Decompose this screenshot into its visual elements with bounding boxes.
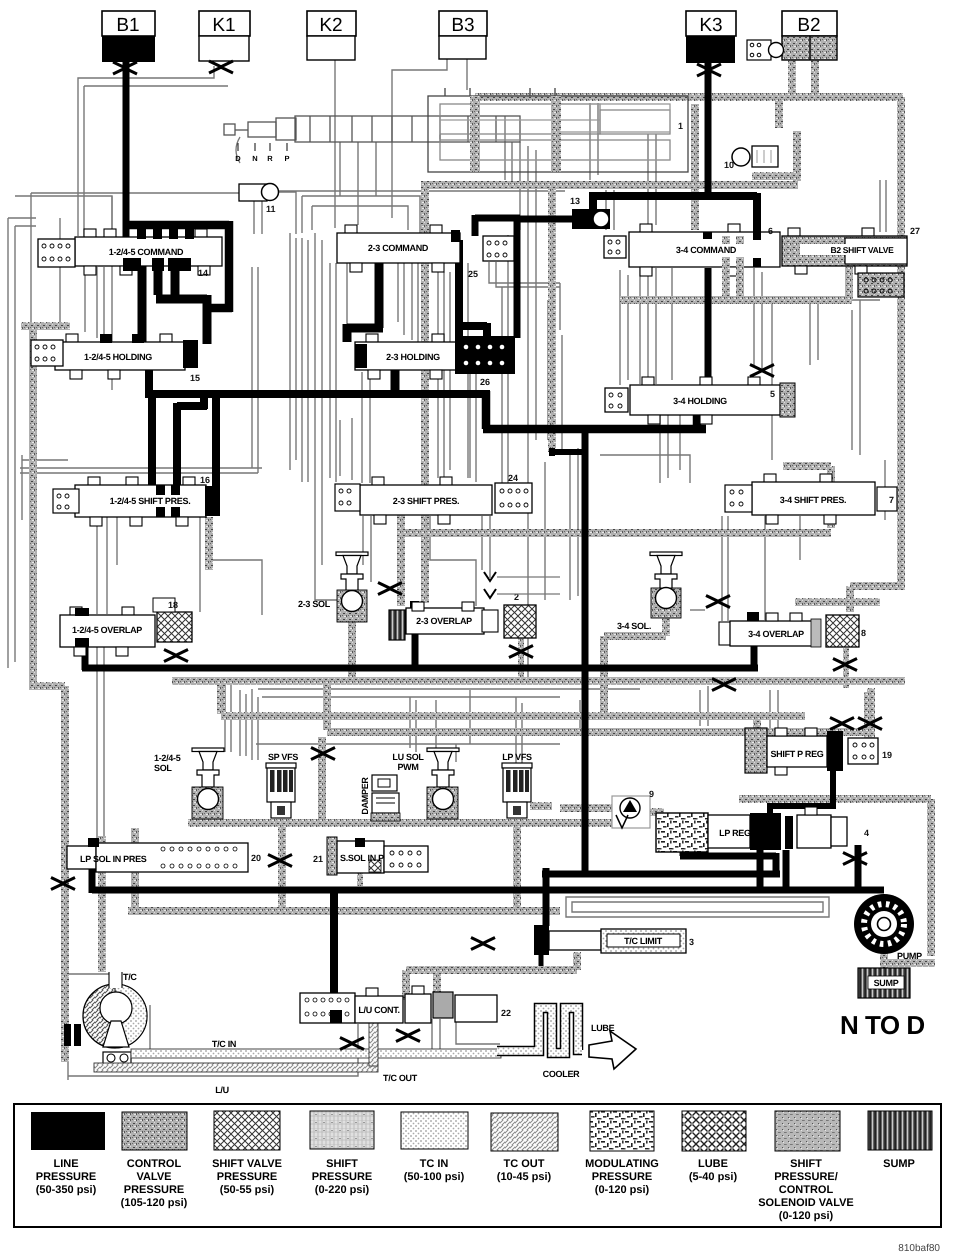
wire 2-3 overlap drop xyxy=(412,632,419,669)
check valve 10 xyxy=(724,146,778,170)
svg-text:LINE: LINE xyxy=(53,1158,78,1170)
svg-text:LUBE: LUBE xyxy=(698,1158,728,1170)
svg-text:3-4 COMMAND: 3-4 COMMAND xyxy=(676,245,737,255)
svg-text:SOLENOID VALVE: SOLENOID VALVE xyxy=(758,1197,854,1209)
svg-text:27: 27 xyxy=(910,226,920,236)
svg-text:6: 6 xyxy=(768,226,773,236)
wire: thin gray interconnect lines xyxy=(8,59,886,1080)
cooler coil xyxy=(497,1008,582,1053)
svg-text:19: 19 xyxy=(882,750,892,760)
wire 26 stub to trunk xyxy=(550,448,583,456)
accumulator 2 xyxy=(504,605,536,638)
valve L/U CONT (22) xyxy=(300,986,511,1023)
svg-text:7: 7 xyxy=(889,495,894,505)
svg-text:3: 3 xyxy=(689,937,694,947)
valve symbol below K3 xyxy=(697,64,721,76)
svg-text:P: P xyxy=(284,154,289,163)
check valve 13 xyxy=(570,196,610,229)
sump xyxy=(858,968,910,998)
valve LP REG (4) xyxy=(656,807,869,852)
valve symbol right of LP SOL IN PRES xyxy=(268,855,292,867)
svg-text:T/C OUT: T/C OUT xyxy=(383,1073,418,1083)
valve symbol below 8 xyxy=(833,659,857,671)
wire left control trunk xyxy=(29,328,37,690)
valve 1-2/4-5 OVERLAP (18) xyxy=(60,607,155,656)
wire overlap rail xyxy=(82,644,758,670)
valve 3-4 SHIFT PRES (7) xyxy=(752,474,897,524)
valve symbol below B1 xyxy=(113,62,137,74)
svg-text:(50-350 psi): (50-350 psi) xyxy=(36,1184,97,1196)
svg-text:TC IN: TC IN xyxy=(420,1158,449,1170)
connector at 3-4 holding xyxy=(605,388,628,412)
svg-text:25: 25 xyxy=(468,269,478,279)
svg-text:T/C LIMIT: T/C LIMIT xyxy=(624,936,663,946)
valve symbols above shift p reg xyxy=(830,718,854,730)
valve symbol left of T/C limit xyxy=(471,938,495,950)
legend swatch line pressure xyxy=(31,1112,105,1150)
valve 2-3 SHIFT PRES (24) xyxy=(360,477,492,524)
svg-text:3-4 SOL.: 3-4 SOL. xyxy=(617,621,651,631)
svg-text:(105-120 psi): (105-120 psi) xyxy=(121,1197,188,1209)
wire control pressure top band xyxy=(475,93,903,101)
svg-text:T/C: T/C xyxy=(123,972,137,982)
wire solenoid sump band xyxy=(188,819,632,827)
connector at B2 xyxy=(747,40,784,60)
wire B1 feed xyxy=(123,60,130,240)
svg-text:CONTROL: CONTROL xyxy=(127,1158,182,1170)
solenoid 1-2/4-5 SOL xyxy=(154,748,224,819)
wire LP REG drops xyxy=(760,845,858,890)
legend swatch sump xyxy=(868,1111,932,1150)
solenoid LU SOL PWM with damper xyxy=(392,748,459,819)
feed pump below t/c xyxy=(103,1052,131,1065)
svg-text:2-3 COMMAND: 2-3 COMMAND xyxy=(368,243,429,253)
connector at 1-2/4-5 command xyxy=(38,239,75,267)
svg-text:1: 1 xyxy=(678,121,683,131)
valve symbol left of 2-3 overlap xyxy=(378,583,402,595)
svg-text:26: 26 xyxy=(480,377,490,387)
svg-text:8: 8 xyxy=(861,628,866,638)
clutch B3 xyxy=(439,11,487,59)
wire K3 feed xyxy=(705,62,712,200)
clutch K3 xyxy=(686,11,736,63)
valve T/C LIMIT (3) xyxy=(534,925,694,955)
valve symbol below 18 xyxy=(164,650,188,662)
svg-text:PUMP: PUMP xyxy=(897,951,922,961)
svg-text:15: 15 xyxy=(190,373,200,383)
legend swatch tc out xyxy=(491,1113,558,1151)
wire 2-3 command right drop xyxy=(459,240,487,342)
valve symbol above 3-4 overlap xyxy=(706,596,730,608)
black stubs into 1-2/4-5 command xyxy=(123,229,194,271)
connector at 2-3 shift pres xyxy=(335,484,360,511)
valve symbols on t/c lines xyxy=(340,1038,364,1050)
solenoid 2-3 SOL xyxy=(298,552,368,622)
wire 13 to 3-4 command xyxy=(589,193,757,234)
speckled columns through 3-4 command xyxy=(726,236,740,300)
svg-text:2-3 SHIFT PRES.: 2-3 SHIFT PRES. xyxy=(393,496,460,506)
svg-text:VALVE: VALVE xyxy=(136,1171,171,1183)
clutch B1 xyxy=(102,11,155,62)
svg-text:5: 5 xyxy=(770,389,775,399)
svg-text:10: 10 xyxy=(724,160,734,170)
svg-text:2-3 SOL: 2-3 SOL xyxy=(298,599,331,609)
svg-text:1-2/4-5: 1-2/4-5 xyxy=(154,753,181,763)
svg-text:18: 18 xyxy=(168,600,178,610)
clutch K2 xyxy=(307,11,356,60)
wire main trunk xyxy=(582,426,589,872)
svg-text:11: 11 xyxy=(266,204,276,214)
valve symbol above 3-4 holding xyxy=(750,365,774,377)
wire solenoid supply pair xyxy=(258,688,640,690)
svg-text:PRESSURE: PRESSURE xyxy=(217,1171,278,1183)
wire solenoid band B xyxy=(327,728,871,736)
legend box xyxy=(14,1104,941,1227)
wire pump feed rails xyxy=(92,852,884,926)
valve symbol right of SP VFS xyxy=(311,748,335,760)
clutch B2 xyxy=(782,11,837,60)
valve 3-4 OVERLAP (8) xyxy=(719,612,821,647)
wire left gallery xyxy=(7,218,9,668)
svg-text:SOL: SOL xyxy=(154,763,172,773)
connector at 3-4 shift pres xyxy=(725,485,752,512)
selector position marks D N R P xyxy=(238,143,287,151)
svg-text:PRESSURE: PRESSURE xyxy=(124,1184,185,1196)
manual valve 1 xyxy=(224,88,688,172)
svg-text:TC OUT: TC OUT xyxy=(504,1158,545,1170)
svg-text:B2 SHIFT VALVE: B2 SHIFT VALVE xyxy=(830,245,894,255)
svg-text:SP VFS: SP VFS xyxy=(268,752,298,762)
svg-text:LP VFS: LP VFS xyxy=(502,752,532,762)
valve symbol on left trunk xyxy=(51,878,75,890)
svg-text:2-3 OVERLAP: 2-3 OVERLAP xyxy=(416,616,472,626)
svg-text:N: N xyxy=(252,154,257,163)
pump xyxy=(854,894,922,961)
svg-text:3-4 HOLDING: 3-4 HOLDING xyxy=(673,396,727,406)
cooler arrow xyxy=(589,1031,636,1069)
connector 19 xyxy=(848,738,878,764)
svg-text:K1: K1 xyxy=(212,15,235,36)
svg-text:3-4 OVERLAP: 3-4 OVERLAP xyxy=(748,629,804,639)
legend swatch modulating pressure xyxy=(590,1111,654,1151)
svg-text:SHIFT VALVE: SHIFT VALVE xyxy=(212,1158,282,1170)
svg-text:LP REG.: LP REG. xyxy=(719,828,753,838)
valve 1-2/4-5 SHIFT PRES (16) xyxy=(75,475,220,526)
solenoid 3-4 SOL xyxy=(617,552,682,631)
svg-text:(5-40 psi): (5-40 psi) xyxy=(689,1171,738,1183)
svg-text:B2: B2 xyxy=(797,15,820,36)
svg-text:1-2/4-5 OVERLAP: 1-2/4-5 OVERLAP xyxy=(72,625,142,635)
svg-text:K2: K2 xyxy=(319,15,342,36)
valve 3-4 HOLDING (5) xyxy=(630,377,795,424)
legend swatch shift pressure xyxy=(310,1111,374,1149)
torque converter xyxy=(64,972,147,1048)
check valve 11 xyxy=(239,184,279,215)
wire shift-p-reg drop xyxy=(770,771,836,815)
connector 24 xyxy=(495,473,532,513)
valve 1-2/4-5 HOLDING (15) xyxy=(55,334,200,383)
svg-text:13: 13 xyxy=(570,196,580,206)
svg-text:SHIFT: SHIFT xyxy=(790,1158,822,1170)
svg-text:21: 21 xyxy=(313,854,323,864)
wire shift-pres feeds xyxy=(152,394,216,488)
svg-text:MODULATING: MODULATING xyxy=(585,1158,659,1170)
svg-text:S.SOL IN P: S.SOL IN P xyxy=(340,853,384,863)
wire 13 to 2-3 command / 26 xyxy=(475,215,576,338)
svg-text:4: 4 xyxy=(864,828,869,838)
valve 2-3 HOLDING xyxy=(355,334,487,379)
solenoid LP VFS xyxy=(502,752,532,818)
valve 3-4 COMMAND (6) xyxy=(629,224,780,276)
wire holding output main xyxy=(145,370,490,397)
connector at S.SOL xyxy=(384,846,428,872)
wire t/c frame xyxy=(68,974,120,985)
svg-text:1-2/4-5 COMMAND: 1-2/4-5 COMMAND xyxy=(109,247,184,257)
legend swatch tc in xyxy=(401,1112,468,1149)
wire t/c limit stub xyxy=(539,952,544,966)
svg-text:PWM: PWM xyxy=(397,762,418,772)
svg-text:1-2/4-5 HOLDING: 1-2/4-5 HOLDING xyxy=(84,352,152,362)
svg-text:9: 9 xyxy=(649,789,654,799)
valve 2-3 OVERLAP (2) xyxy=(389,592,519,640)
svg-text:CONTROL: CONTROL xyxy=(779,1184,834,1196)
clutch K1 xyxy=(199,11,250,61)
svg-text:K3: K3 xyxy=(699,15,722,36)
svg-text:PRESSURE: PRESSURE xyxy=(592,1171,653,1183)
connector at 1-2/4-5 holding xyxy=(31,340,63,366)
connector 26 xyxy=(455,336,515,387)
svg-text:SUMP: SUMP xyxy=(883,1158,915,1170)
wire node 11 to left trunk xyxy=(31,192,239,194)
wire manual valve band xyxy=(421,181,798,189)
wire right control trunk xyxy=(897,97,905,590)
svg-text:SHIFT: SHIFT xyxy=(326,1158,358,1170)
wire below 1-2/4-5 command xyxy=(142,266,207,344)
wire K2 feed xyxy=(334,60,336,228)
svg-text:22: 22 xyxy=(501,1008,511,1018)
svg-text:1-2/4-5 SHIFT PRES.: 1-2/4-5 SHIFT PRES. xyxy=(110,496,191,506)
valve symbol below K1 xyxy=(209,61,233,73)
wire pump gallery loop xyxy=(566,897,829,917)
svg-text:24: 24 xyxy=(508,473,518,483)
t/c out line xyxy=(94,1063,378,1072)
wire to 2-3 holding xyxy=(347,263,395,397)
svg-text:LU SOL: LU SOL xyxy=(392,752,424,762)
svg-text:(0-120 psi): (0-120 psi) xyxy=(779,1210,834,1222)
svg-text:D: D xyxy=(235,154,241,163)
svg-text:810baf80: 810baf80 xyxy=(898,1243,940,1254)
svg-text:COOLER: COOLER xyxy=(543,1069,581,1079)
svg-text:(0-220 psi): (0-220 psi) xyxy=(315,1184,370,1196)
legend swatch control valve pressure xyxy=(122,1112,187,1150)
svg-text:2-3 HOLDING: 2-3 HOLDING xyxy=(386,352,440,362)
check valve 9 xyxy=(612,789,654,828)
svg-text:SHIFT P REG: SHIFT P REG xyxy=(770,749,823,759)
connector at 1-2/4-5 shift pres xyxy=(53,489,79,513)
wire command manifold xyxy=(123,221,232,312)
wire solenoid band A xyxy=(221,712,805,720)
valve symbol right of LP REG xyxy=(843,853,867,865)
svg-text:L/U CONT.: L/U CONT. xyxy=(358,1005,399,1015)
svg-text:T/C IN: T/C IN xyxy=(212,1039,236,1049)
wire shift valve band xyxy=(398,529,831,537)
svg-text:(50-55 psi): (50-55 psi) xyxy=(220,1184,275,1196)
svg-text:DAMPER: DAMPER xyxy=(360,777,370,815)
svg-text:3-4 SHIFT PRES.: 3-4 SHIFT PRES. xyxy=(780,495,847,505)
wire: speckled control-pressure channels xyxy=(21,60,935,1062)
valve 1-2/4-5 COMMAND (14) xyxy=(75,229,222,278)
svg-text:PRESSURE: PRESSURE xyxy=(312,1171,373,1183)
wire overlap control band xyxy=(172,677,905,685)
svg-text:PRESSURE: PRESSURE xyxy=(36,1171,97,1183)
t/c in line xyxy=(131,1049,501,1058)
svg-text:B3: B3 xyxy=(451,15,474,36)
svg-text:L/U: L/U xyxy=(215,1085,229,1095)
svg-text:R: R xyxy=(267,154,273,163)
legend swatch shift valve pressure xyxy=(214,1111,280,1150)
legend swatch shift pressure/control solenoid valve xyxy=(775,1111,840,1151)
svg-text:(0-120 psi): (0-120 psi) xyxy=(595,1184,650,1196)
valve S.SOL IN P (21) xyxy=(313,837,384,875)
accumulator 8 xyxy=(826,615,866,647)
wire shift pressure pair xyxy=(20,467,262,469)
check marks above 2-3 overlap xyxy=(484,572,496,598)
connector at 3-4 command xyxy=(604,236,626,258)
solenoid SP VFS xyxy=(266,752,298,818)
connector below B2 shift valve xyxy=(858,273,904,297)
svg-text:20: 20 xyxy=(251,853,261,863)
connector 25 xyxy=(468,236,514,279)
damper xyxy=(360,775,400,821)
wire loop above 2-3 command xyxy=(302,196,420,233)
svg-text:16: 16 xyxy=(200,475,210,485)
wire pump suction loop xyxy=(739,795,931,803)
svg-text:LUBE: LUBE xyxy=(591,1023,615,1033)
svg-text:LP SOL IN PRES: LP SOL IN PRES xyxy=(80,854,147,864)
valve 2-3 COMMAND (25) xyxy=(337,225,460,272)
wire K1 feed channel xyxy=(78,66,214,236)
wire: thick black line-pressure network xyxy=(82,60,884,1018)
svg-text:SUMP: SUMP xyxy=(874,978,899,988)
accumulator 18 xyxy=(153,598,192,642)
svg-text:B1: B1 xyxy=(116,15,139,36)
legend swatch lube xyxy=(682,1111,746,1151)
wire B3 feed xyxy=(392,59,447,218)
svg-text:PRESSURE/: PRESSURE/ xyxy=(774,1171,838,1183)
valve LP SOL IN PRES (20) xyxy=(67,838,261,872)
valve B2 SHIFT VALVE (27) xyxy=(782,226,920,274)
wire 3-4 command to holding xyxy=(705,268,712,386)
svg-text:(50-100 psi): (50-100 psi) xyxy=(404,1171,465,1183)
wire return band xyxy=(128,907,560,915)
valve SHIFT P REG (19) xyxy=(745,728,892,775)
svg-text:(10-45 psi): (10-45 psi) xyxy=(497,1171,552,1183)
svg-text:14: 14 xyxy=(198,268,208,278)
valve symbol mid overlap rail xyxy=(509,646,533,658)
svg-text:N TO D: N TO D xyxy=(840,1010,925,1040)
wire L/U control drop xyxy=(330,887,338,1018)
